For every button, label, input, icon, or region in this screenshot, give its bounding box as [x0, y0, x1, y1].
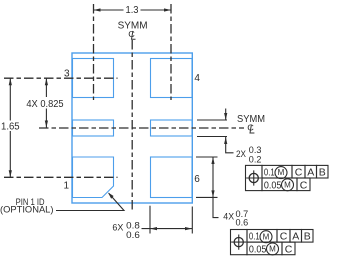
- svg-text:M: M: [269, 245, 276, 254]
- svg-text:6: 6: [194, 174, 200, 185]
- svg-text:M: M: [263, 232, 270, 241]
- svg-text:A: A: [292, 231, 299, 243]
- svg-text:1.65: 1.65: [1, 121, 20, 132]
- svg-text:B: B: [319, 167, 326, 179]
- svg-text:B: B: [304, 231, 311, 243]
- svg-text:2X: 2X: [236, 149, 246, 159]
- svg-text:0.2: 0.2: [249, 154, 262, 164]
- svg-text:M: M: [278, 168, 285, 177]
- svg-text:C: C: [280, 231, 288, 243]
- svg-text:0.05: 0.05: [264, 180, 282, 191]
- svg-text:0.6: 0.6: [236, 218, 249, 228]
- svg-text:1: 1: [64, 180, 70, 191]
- svg-text:0.05: 0.05: [249, 244, 267, 255]
- svg-text:3: 3: [64, 68, 70, 79]
- svg-text:4X: 4X: [223, 212, 234, 222]
- svg-text:C: C: [285, 244, 293, 256]
- svg-text:C: C: [300, 179, 308, 191]
- svg-text:0.1: 0.1: [264, 167, 275, 178]
- svg-text:0.1: 0.1: [249, 232, 260, 243]
- svg-text:0.8: 0.8: [126, 220, 140, 230]
- svg-text:6X: 6X: [112, 223, 123, 233]
- svg-text:4: 4: [194, 73, 200, 84]
- svg-text:M: M: [284, 181, 291, 190]
- svg-text:4X 0.825: 4X 0.825: [26, 99, 64, 110]
- svg-text:A: A: [307, 167, 314, 179]
- svg-text:(OPTIONAL): (OPTIONAL): [0, 205, 54, 215]
- svg-text:0.6: 0.6: [126, 230, 140, 240]
- svg-text:C: C: [295, 167, 303, 179]
- svg-text:1.3: 1.3: [126, 4, 139, 16]
